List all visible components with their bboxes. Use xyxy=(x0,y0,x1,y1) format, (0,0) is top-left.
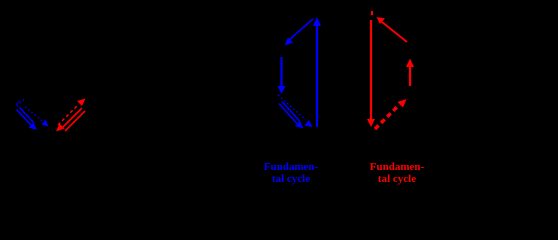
wire: red thick dashed bottom edge of cycle (arrow up-right) xyxy=(375,99,407,129)
wire: red dashed non-tree edge on left graph xyxy=(58,99,86,126)
svg-text:tal cycle: tal cycle xyxy=(272,173,310,185)
wire: red top diagonal edge (arrow up-left) xyxy=(377,17,408,42)
wire: blue dotted non-tree edge on left graph xyxy=(25,107,49,127)
wire: red left vertical edge (arrow down) xyxy=(367,20,375,127)
svg-text:Fundamen-: Fundamen- xyxy=(264,161,319,173)
svg-text:tal cycle: tal cycle xyxy=(378,173,416,185)
wire: blue top diagonal edge (arrow down-left) xyxy=(285,19,314,46)
wire: red right vertical edge (arrow up) xyxy=(406,59,414,87)
wire: blue left vertical edge (arrow down) xyxy=(278,57,286,94)
wire: red top stub above node xyxy=(371,11,373,15)
wire: blue double-line bottom arrow of cycle xyxy=(279,102,304,129)
wire: red double-line arrow on left graph xyxy=(56,108,85,132)
wire: blue dotted bottom edge of cycle xyxy=(278,95,313,127)
wire: blue double-line arrow on left graph xyxy=(17,108,38,131)
wire: blue right vertical edge (arrow up) xyxy=(313,17,321,127)
svg-text:Fundamen-: Fundamen- xyxy=(370,161,425,173)
